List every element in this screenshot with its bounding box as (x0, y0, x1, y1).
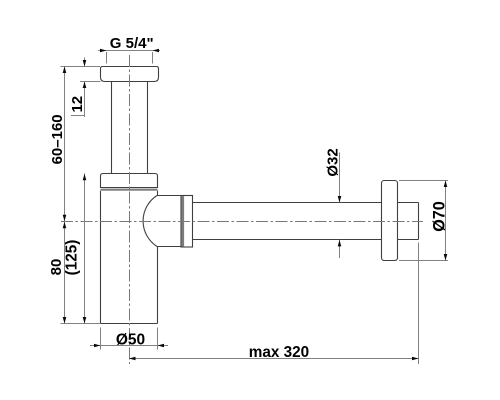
dimension O50 right arrow (158, 344, 165, 348)
dimension O50 line (90, 345, 168, 347)
svg-text:max 320: max 320 (249, 344, 309, 361)
svg-text:Ø32: Ø32 (324, 148, 341, 176)
dimension max 320 left arrow (129, 357, 136, 361)
dimension O32 upper tail with down arrow (339, 153, 341, 203)
dimension G 5/4" line (98, 50, 160, 52)
cup body bottom (101, 323, 158, 325)
dimension O70 line (445, 181, 447, 261)
elbow bottom edge (157, 246, 181, 248)
dimension 12 upper tail with down arrow (84, 58, 86, 67)
cup body right wall lower segment (157, 247, 159, 324)
cup body right wall upper segment (157, 191, 159, 196)
svg-text:Ø70: Ø70 (431, 201, 449, 232)
extension line at flange bottom level (80, 81, 101, 83)
body collar nut (101, 174, 158, 188)
vertical inlet tube left wall (111, 82, 113, 174)
dimension O50 extension line left (100, 328, 102, 350)
svg-text:G 5/4": G 5/4" (110, 35, 154, 52)
dimension 80 bottom arrow (63, 317, 67, 324)
dimension O70 extension line top (399, 180, 448, 182)
dimension O70 bottom arrow (444, 254, 448, 261)
dimension 80 line (64, 222, 66, 324)
dimension 60-160 line (64, 67, 66, 222)
extension line at cup bottom level (61, 323, 101, 325)
dimension 60-160 top arrow (63, 67, 67, 74)
dimension (125) top arrow (83, 174, 87, 181)
dimension 60-160 bottom arrow (63, 215, 67, 222)
dimension O50 left arrow (94, 344, 101, 348)
dimension G 5/4" extension line left (106, 52, 108, 64)
horizontal centerline (outlet axis) (61, 221, 423, 223)
elbow curved end (143, 196, 157, 247)
outlet pipe top line (right of rosette) (398, 202, 419, 204)
extension line at flange top level (61, 66, 101, 68)
vertical centerline (body axis) (129, 55, 131, 364)
svg-text:(125): (125) (63, 240, 80, 276)
dimension O70 top arrow (444, 181, 448, 188)
svg-text:12: 12 (69, 96, 86, 113)
elbow top edge (157, 195, 181, 197)
dimension O70 extension line bottom (399, 260, 448, 262)
dimension max 320 right arrow (412, 357, 419, 361)
outlet pipe bottom line (left of rosette) (193, 239, 382, 241)
collar bottom chrome band (101, 189, 158, 191)
dimension 12 underline shoulder (71, 115, 85, 117)
top flange (chrome cap) (101, 67, 159, 82)
wall rosette flange (382, 181, 398, 261)
svg-text:60–160: 60–160 (49, 114, 66, 164)
dimension (125) line (84, 174, 86, 324)
outlet pipe bottom line (right of rosette) (398, 239, 419, 241)
dimension max 320 line (129, 358, 419, 360)
cup body left wall (100, 191, 102, 324)
dimension G 5/4" right arrow (153, 49, 160, 53)
dimension 12 lower tail with up arrow (84, 82, 86, 118)
dimension O50 extension line right (157, 328, 159, 350)
vertical inlet tube right wall (147, 82, 149, 174)
outlet pipe top line (left of rosette) (193, 202, 382, 204)
dimension G 5/4" extension line right (152, 52, 154, 64)
nut chrome band (182, 196, 185, 246)
dimension O32 lower tail with up arrow (339, 240, 341, 258)
dimension 80 top arrow (63, 222, 67, 229)
dimension (125) bottom arrow (83, 317, 87, 324)
dimension G 5/4" left arrow (100, 49, 107, 53)
outlet pipe end cap (418, 203, 420, 240)
dimension max 320 right extension line (418, 243, 420, 365)
outlet pipe nut (181, 196, 193, 248)
svg-text:Ø50: Ø50 (116, 332, 145, 349)
